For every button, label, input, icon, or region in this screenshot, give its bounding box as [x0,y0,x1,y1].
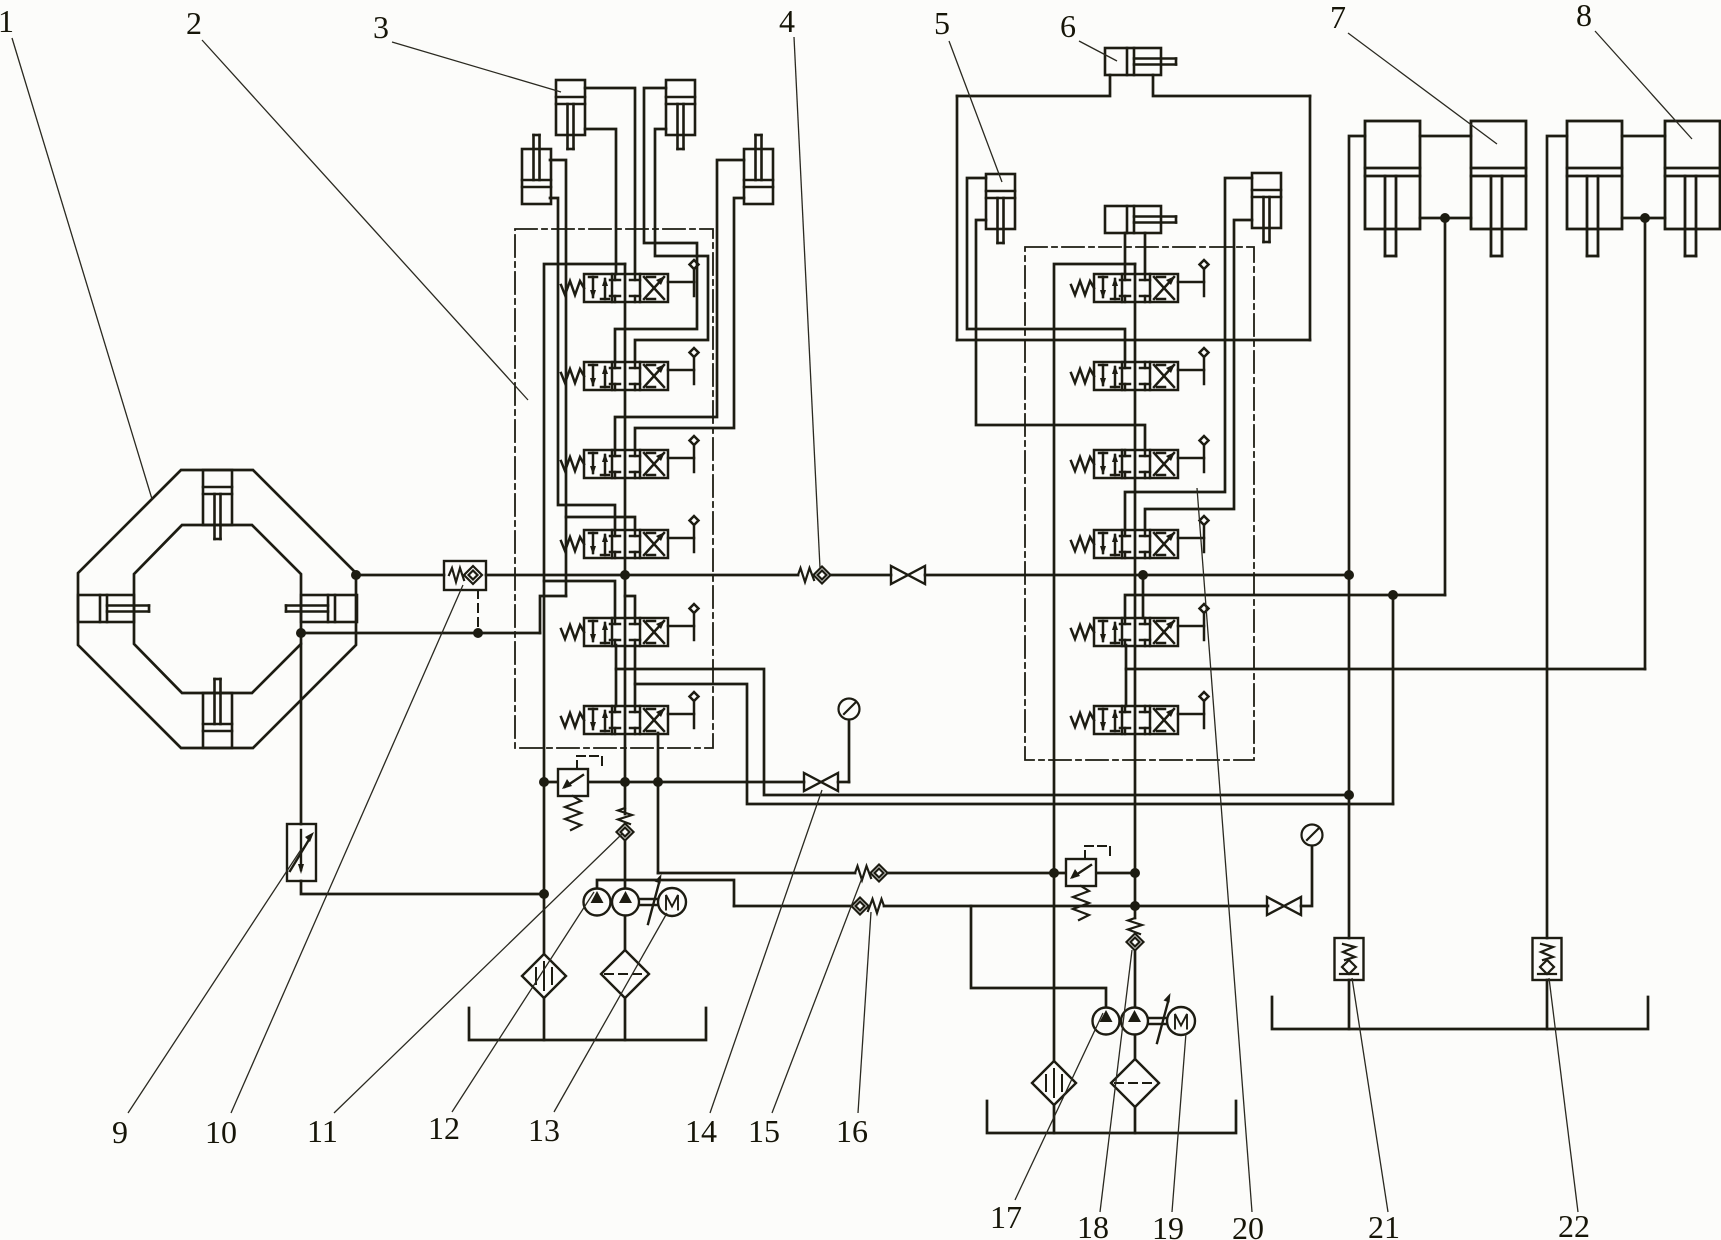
svg-text:6: 6 [1060,8,1076,44]
frame right edge [1309,96,1312,340]
tank manifold [544,264,625,782]
svg-text:20: 20 [1232,1210,1264,1240]
wire bottom link 7 [1420,217,1471,220]
wire frame cylinder rod-end to valve R4 [1125,178,1252,530]
dash-dot enclosure [515,229,713,748]
wire R5 outlet through R6 [1125,645,1128,706]
cylinder 3c [522,135,551,204]
cylinder 5 [986,174,1015,243]
node [620,777,630,787]
svg-text:10: 10 [205,1114,237,1150]
filter right B [1111,1059,1159,1107]
leader 7 [1348,33,1497,144]
dash-dot enclosure [1025,247,1254,760]
leader 19 [1172,1033,1186,1212]
wire 3c cap-end [550,198,615,530]
wire 3c to valve IV [566,517,635,530]
node main-P right bank [1138,570,1148,580]
svg-text:2: 2 [186,5,202,41]
svg-text:9: 9 [112,1114,128,1150]
wire check to pump [1134,951,1137,1008]
cylinder 6 [1105,48,1176,75]
leader 13 [554,913,667,1112]
valve L3 [561,436,699,478]
throttle valve (item 9) [287,824,316,881]
leader 11 [334,834,622,1113]
wire main line [356,574,444,577]
shut-off valve (item 14) [804,773,838,791]
relief valve left [558,756,602,830]
wire L5 outlet through L6 left [615,645,618,706]
node relief right A [1049,868,1059,878]
pump unit right (items 17,19) [1093,993,1196,1043]
filter left A [522,954,566,998]
wire main line [831,574,892,577]
svg-text:13: 13 [528,1112,560,1148]
svg-text:18: 18 [1077,1209,1109,1240]
valve R5 [1071,604,1209,646]
leader 5 [949,41,1002,182]
node branch [1388,590,1398,600]
node relief line [653,777,663,787]
leader 22 [1549,978,1578,1212]
valve L5 [561,604,699,646]
valve R4 [1071,516,1209,558]
valve L4 [561,516,699,558]
relief rail [544,781,804,784]
check valve (item 11) [617,808,634,841]
wire to gauge [1301,846,1312,906]
svg-text:7: 7 [1330,0,1346,35]
wire L5 outlet through L6 right [634,645,637,706]
leader 9 [128,848,302,1113]
wire L5 work line B to right circuit [635,684,1393,804]
node main line end [1344,570,1354,580]
node at octagon right vertex [351,570,361,580]
leader 21 [1352,978,1388,1212]
valve L1 [561,260,699,302]
wire left feed 7 [1349,136,1365,938]
wire frame cylinder cap-end to valve R4 [1145,220,1252,530]
leader 8 [1595,31,1692,139]
leader 1 [12,38,152,499]
svg-text:15: 15 [748,1113,780,1149]
return manifold right [1053,873,1056,1061]
check-filter unit (item 10) [444,561,486,590]
shut-off valve right-low [1267,897,1301,915]
wire throttle to pump return [301,881,544,894]
svg-text:22: 22 [1558,1208,1590,1240]
P column right [1134,264,1137,873]
wire riser to tank manifold [540,596,566,633]
wire left feed 8 [1547,136,1567,938]
wire 3a cap-end [585,129,616,274]
cylinder 7b [1471,121,1526,256]
node pair 8 [1640,213,1650,223]
relief rail to right circuit [658,872,855,875]
check valve (item 18) [1127,918,1144,951]
leader 4 [794,37,820,568]
wire pair 7 down [1444,218,1447,595]
svg-text:21: 21 [1368,1209,1400,1240]
wire P jog into L5 [625,596,635,618]
node [539,777,549,787]
wire L5 work line A to right circuit [616,669,1349,795]
valve L6 [561,692,699,734]
leader 18 [1100,950,1132,1212]
wire main drop into R5 [1142,575,1145,618]
leader 12 [452,892,594,1112]
return to filter [543,782,546,954]
leader 20 [1197,488,1252,1212]
wires to tank [1348,980,1351,1029]
frame top edge with ports [957,75,1110,96]
octagon outer ring [78,470,356,748]
cylinder mid horizontal [1105,206,1176,233]
check valve (item 16) mirrored [852,898,885,915]
svg-text:12: 12 [428,1110,460,1146]
clamp cylinder top [203,470,232,539]
tank right [987,1101,1236,1133]
wire 3a rod-end [585,88,635,274]
leader 10 [231,585,463,1113]
wire P column to check [1134,873,1137,918]
check valve (item 15) [855,865,888,882]
clamp cylinder right [286,595,357,622]
throttle-check valve (item 22) [1533,938,1562,980]
wire 3b rod-end [615,88,697,362]
wire bottom link 8 [1622,217,1665,220]
leader 17 [1015,1013,1103,1200]
cylinder 8a [1567,121,1622,256]
svg-text:1: 1 [0,3,14,39]
pump1 suction rail [597,880,734,906]
node lower rail [1130,901,1140,911]
relief valve right [1066,846,1110,920]
node pilot junction [473,628,483,638]
octagon inner ring [134,525,301,693]
wire R5 work line to cylinder pair 8 [1126,668,1645,671]
wire 3d rod-end [615,160,744,450]
wire L6 drain to relief rail [657,733,660,873]
wire pair 8 down [1644,218,1647,669]
pressure gauge left-mid [839,699,860,720]
cylinder frame-right [1252,173,1281,242]
svg-text:8: 8 [1576,0,1592,33]
wire rod-side link 8 [1622,135,1665,138]
shut-off valve on main line [891,566,925,584]
pressure gauge right [1302,825,1323,846]
tank manifold right [1054,264,1135,873]
valve L2 [561,348,699,390]
wire 3b cap-end [635,129,708,362]
pump unit left (items 12,13) [584,874,687,924]
wire main line [486,574,798,577]
clamp cylinder left [78,595,149,622]
wire cyl5 cap-end to valve R3 [976,220,1145,450]
wire check to pump [624,841,627,889]
drop to right pump suction [971,906,1106,1007]
node return junction [539,889,549,899]
svg-text:3: 3 [373,9,389,45]
cylinder 3b [666,80,695,149]
gauge stem [848,720,851,782]
cylinder 3a [556,80,585,149]
throttle-check valve (item 21) [1335,938,1364,980]
wire octagon down to throttle [300,644,303,824]
tank left [469,1008,706,1040]
leader 15 [772,878,862,1113]
svg-text:11: 11 [307,1113,338,1149]
valve R6 [1071,692,1209,734]
cylinder 8b [1665,121,1720,256]
wire cyl5 rod-end to valve R2 [967,178,1125,362]
svg-text:17: 17 [990,1199,1022,1235]
wire rod-side link 7 [1420,135,1471,138]
wire 3d cap-end [635,198,744,450]
wire pump2 to filter [624,916,627,950]
filter left B [601,950,649,998]
leader 14 [710,790,822,1113]
check valve (item 4) [798,567,831,584]
cylinder 3d [744,135,773,204]
wire octagon lower port to riser [301,632,540,635]
pressure rail lower [734,905,851,908]
svg-text:4: 4 [779,3,795,39]
cylinder 7a [1365,121,1420,256]
valve R1 [1071,260,1209,302]
wire L5 A-port to tank manifold [544,581,615,618]
frame left edge [956,96,959,340]
wires filters to tank [1053,1105,1056,1133]
leader 6 [1079,41,1117,61]
filter right A [1032,1061,1076,1105]
leader 16 [858,912,871,1113]
P column [624,264,627,814]
leader 2 [202,40,528,400]
svg-text:5: 5 [934,5,950,41]
node pair 7 [1440,213,1450,223]
tank far right [1272,997,1648,1029]
wire mid cylinder ports to valve R1 [1124,233,1127,274]
valve R2 [1071,348,1209,390]
wire pump2 to filter [1134,1035,1137,1059]
node relief right B [1130,868,1140,878]
clamp cylinder bottom [203,679,232,748]
node main-P left bank [620,570,630,580]
wire filters to tank [543,998,546,1040]
valve R3 [1071,436,1209,478]
branch down to L6 line [1392,595,1395,804]
pilot dashed line from item 10 [477,590,479,631]
node L6 rail join [1344,790,1354,800]
wire 3c rod-end [550,160,566,596]
wire main line [925,574,1349,577]
wire R5 A-port to cylinder pair 7 [1125,595,1445,618]
leader 3 [392,42,561,92]
svg-text:14: 14 [685,1113,717,1149]
svg-text:19: 19 [1152,1210,1184,1240]
frame bottom edge [957,339,1310,342]
node on inner right edge [296,628,306,638]
svg-text:16: 16 [836,1113,868,1149]
